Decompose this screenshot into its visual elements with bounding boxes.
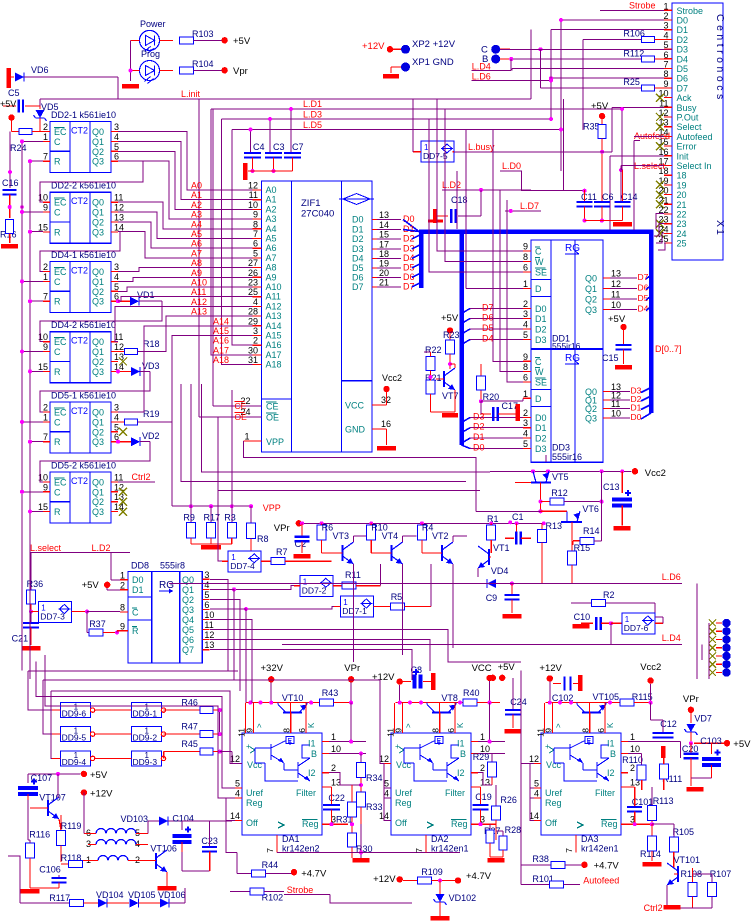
- svg-text:Vcc2: Vcc2: [382, 373, 402, 383]
- resistor R3: [231, 506, 233, 522]
- svg-text:7: 7: [414, 848, 424, 853]
- pin 4 wire: [111, 280, 118, 282]
- svg-text:D: D: [535, 394, 542, 404]
- eprom diamond symbol: [343, 194, 370, 205]
- wire DA1 pin14 feed: [226, 798, 235, 821]
- svg-text:D4: D4: [677, 54, 689, 64]
- svg-text:DD5-1 k561ie10: DD5-1 k561ie10: [51, 391, 116, 401]
- svg-text:DD7-3: DD7-3: [40, 612, 65, 622]
- svg-text:8: 8: [581, 728, 591, 733]
- svg-text:C22: C22: [328, 793, 345, 803]
- svg-text:15: 15: [38, 502, 48, 512]
- svg-text:Uref: Uref: [246, 788, 264, 798]
- wire: [399, 685, 401, 703]
- wire Init: [610, 155, 664, 157]
- svg-text:EC: EC: [54, 267, 67, 277]
- svg-text:6: 6: [596, 728, 606, 733]
- svg-text:5: 5: [235, 779, 240, 789]
- regulator DA3 kr142en1: [541, 733, 621, 835]
- svg-text:Off: Off: [246, 818, 258, 828]
- svg-text:R116: R116: [29, 830, 50, 840]
- svg-text:+12V: +12V: [373, 874, 396, 885]
- svg-text:12: 12: [230, 754, 240, 764]
- svg-text:VT101: VT101: [674, 855, 701, 865]
- wire DD8 q5-q7 right: [210, 629, 521, 662]
- DA2 pin 8 top: [439, 703, 441, 733]
- pin 6 wire: [111, 300, 118, 302]
- svg-text:A7: A7: [266, 253, 277, 263]
- svg-text:29: 29: [248, 316, 258, 326]
- svg-text:L.D5: L.D5: [303, 120, 322, 130]
- pin 15 wire: [43, 370, 50, 372]
- svg-text:20: 20: [379, 268, 389, 278]
- svg-text:I2: I2: [308, 768, 316, 778]
- svg-text:28: 28: [248, 307, 258, 317]
- pin 12 wire: [111, 351, 118, 353]
- wire: [118, 232, 253, 258]
- svg-text:A13: A13: [191, 307, 207, 317]
- svg-text:A5: A5: [266, 234, 277, 244]
- wire pin2: [329, 773, 361, 785]
- svg-text:10: 10: [611, 409, 621, 419]
- wire pin10: [478, 753, 505, 755]
- svg-text:20: 20: [677, 190, 687, 200]
- svg-text:C: C: [54, 417, 61, 427]
- svg-text:Reg: Reg: [302, 819, 319, 829]
- svg-text:R44: R44: [262, 860, 279, 870]
- svg-text:Strobe: Strobe: [287, 885, 314, 895]
- resistor R10: [367, 525, 376, 540]
- unused pins x: [119, 488, 127, 496]
- svg-text:D7: D7: [352, 282, 364, 292]
- svg-text:+5V: +5V: [233, 36, 251, 47]
- wire: [601, 471, 603, 541]
- svg-text:VD3: VD3: [142, 361, 160, 371]
- svg-text:DD7-5: DD7-5: [423, 151, 448, 161]
- svg-text:CT2: CT2: [71, 336, 88, 346]
- svg-text:+4.7V: +4.7V: [466, 871, 492, 882]
- svg-text:D4: D4: [638, 304, 649, 314]
- svg-text:A11: A11: [266, 292, 281, 302]
- pin 5 wire: [111, 150, 118, 152]
- svg-text:2: 2: [663, 11, 668, 21]
- svg-text:Q3: Q3: [182, 605, 194, 615]
- svg-text:2: 2: [331, 763, 336, 773]
- wire: [95, 733, 132, 735]
- ground: [431, 916, 450, 921]
- svg-text:Filter: Filter: [595, 788, 615, 798]
- wire: [218, 417, 480, 491]
- bus entry: [641, 405, 651, 410]
- svg-text:D5: D5: [638, 293, 649, 303]
- IC DD3 555ir16 register: [531, 350, 603, 463]
- svg-text:A1: A1: [266, 195, 277, 205]
- svg-text:3: 3: [253, 326, 258, 336]
- svg-text:8: 8: [253, 219, 258, 229]
- pin 15 wire: [43, 231, 50, 233]
- svg-text:K: K: [307, 722, 316, 728]
- svg-text:+5V: +5V: [90, 770, 108, 781]
- DA2 pin 10: [471, 753, 478, 755]
- pad: [709, 661, 716, 668]
- svg-text:R45: R45: [181, 739, 198, 749]
- pin 10 wire: [43, 341, 50, 343]
- wire: [22, 351, 43, 353]
- svg-text:I2: I2: [607, 768, 615, 778]
- wire: [118, 141, 253, 199]
- node Vcc2: [632, 468, 638, 474]
- svg-text:3: 3: [114, 403, 119, 413]
- svg-text:VT3: VT3: [333, 531, 350, 541]
- wire: [452, 564, 454, 570]
- svg-text:D2: D2: [535, 325, 547, 335]
- svg-text:Select In: Select In: [677, 161, 712, 171]
- svg-text:5: 5: [114, 142, 119, 152]
- svg-text:EC: EC: [54, 198, 67, 208]
- wire: [118, 151, 253, 209]
- svg-text:11: 11: [114, 472, 123, 482]
- svg-text:Q3: Q3: [92, 437, 104, 447]
- svg-text:D3: D3: [473, 412, 485, 422]
- bottom wire: [277, 851, 460, 853]
- svg-text:Reg: Reg: [246, 798, 263, 808]
- wire A13: [162, 316, 253, 352]
- wire DA3 left pins: [520, 670, 522, 884]
- svg-text:R8: R8: [257, 534, 269, 544]
- pin 10 wire: [43, 201, 50, 203]
- svg-text:L.D0: L.D0: [502, 161, 521, 171]
- wire pin10: [329, 753, 366, 755]
- wire: [118, 297, 253, 302]
- svg-text:2: 2: [43, 403, 48, 413]
- DA3 pin 13: [621, 786, 628, 788]
- svg-text:D6: D6: [638, 283, 649, 293]
- svg-text:R117: R117: [49, 893, 70, 903]
- svg-text:C14: C14: [621, 192, 638, 202]
- svg-text:DD3: DD3: [552, 443, 570, 453]
- svg-text:Reg: Reg: [601, 819, 618, 829]
- svg-text:Q0: Q0: [92, 477, 104, 487]
- pin 3 wire: [111, 271, 118, 273]
- svg-text:DA2: DA2: [431, 834, 449, 844]
- wire VT6 base rail: [476, 510, 541, 512]
- svg-text:VD104: VD104: [96, 890, 124, 900]
- svg-text:DD2-1 k561ie10: DD2-1 k561ie10: [51, 110, 116, 120]
- wire: [30, 231, 43, 233]
- svg-text:VT7: VT7: [442, 391, 459, 401]
- svg-text:R12: R12: [551, 488, 568, 498]
- svg-text:L.D3: L.D3: [303, 110, 322, 120]
- svg-text:DD7-2: DD7-2: [302, 585, 327, 595]
- svg-text:>: >: [404, 723, 413, 728]
- svg-text:+12V: +12V: [90, 789, 113, 800]
- bus entry: [646, 307, 651, 311]
- DA3 pin 7: [575, 835, 577, 852]
- wire: [500, 48, 510, 50]
- svg-text:D2: D2: [677, 35, 689, 45]
- svg-text:C5: C5: [8, 88, 20, 98]
- wire: [231, 390, 233, 506]
- pad: [709, 628, 716, 635]
- svg-text:Q1: Q1: [92, 277, 104, 287]
- ground: [122, 84, 139, 89]
- DA1 pin 4: [235, 797, 242, 799]
- bus entry: [646, 275, 651, 279]
- svg-text:D6: D6: [482, 313, 494, 323]
- wire: [472, 69, 512, 71]
- svg-text:8: 8: [523, 362, 528, 372]
- node +5V: [8, 114, 14, 120]
- svg-text:R34: R34: [366, 773, 383, 783]
- inverter DD9-1: [132, 703, 162, 718]
- svg-text:Q3: Q3: [585, 305, 597, 315]
- svg-text:A8: A8: [266, 263, 277, 273]
- wire: [52, 757, 61, 759]
- svg-text:5: 5: [384, 779, 389, 789]
- svg-text:RG: RG: [159, 580, 174, 591]
- svg-text:3: 3: [523, 418, 528, 428]
- svg-text:R28: R28: [505, 825, 522, 835]
- svg-text:10: 10: [38, 193, 48, 203]
- wire reset rail: [29, 161, 31, 679]
- svg-text:R107: R107: [710, 869, 732, 879]
- svg-text:1: 1: [480, 732, 485, 742]
- ground: [386, 429, 388, 445]
- svg-text:25: 25: [677, 239, 687, 249]
- wire L.init: [118, 98, 531, 100]
- svg-text:4: 4: [384, 789, 389, 799]
- svg-text:+5V: +5V: [591, 101, 609, 112]
- svg-text:7: 7: [43, 432, 48, 442]
- svg-text:A4: A4: [266, 224, 277, 234]
- svg-text:7: 7: [43, 292, 48, 302]
- svg-text:A3: A3: [266, 214, 277, 224]
- svg-text:D4: D4: [352, 254, 364, 264]
- svg-text:A2: A2: [266, 204, 277, 214]
- svg-text:A8: A8: [191, 258, 202, 268]
- DA2 pin 13: [471, 786, 478, 788]
- svg-text:R3: R3: [224, 513, 236, 523]
- svg-text:C: C: [54, 277, 61, 287]
- pin 15 wire: [43, 511, 50, 513]
- svg-text:R105: R105: [673, 827, 695, 837]
- wire L.D4 to pin7: [512, 68, 664, 70]
- svg-text:3: 3: [204, 570, 209, 580]
- svg-text:+5V: +5V: [82, 580, 100, 591]
- wire DD3 control feeds: [493, 130, 523, 362]
- svg-text:9: 9: [544, 728, 554, 733]
- DA1 pin 7: [276, 835, 278, 852]
- resistor R8: [250, 506, 252, 523]
- pin 12 wire: [111, 211, 118, 213]
- ground: [490, 856, 503, 858]
- svg-text:26: 26: [248, 268, 258, 278]
- svg-text:Q6: Q6: [182, 635, 194, 645]
- svg-text:L.D6: L.D6: [662, 572, 681, 582]
- svg-text:+5V: +5V: [441, 313, 459, 324]
- wire: [22, 280, 43, 282]
- bus entry: [470, 328, 523, 330]
- svg-text:12: 12: [529, 754, 539, 764]
- svg-text:Strobe: Strobe: [677, 6, 704, 16]
- svg-text:+4.7V: +4.7V: [594, 861, 620, 872]
- wire mesh verticals: [530, 30, 532, 99]
- svg-text:R: R: [54, 367, 61, 377]
- regulator DA2 kr142en1: [391, 733, 471, 835]
- svg-text:L.busy: L.busy: [468, 142, 495, 152]
- inverter DD9-4: [61, 751, 91, 766]
- svg-text:8: 8: [431, 728, 441, 733]
- svg-text:D1: D1: [352, 225, 364, 235]
- svg-text:Autofeed: Autofeed: [583, 876, 619, 886]
- svg-text:Q1: Q1: [92, 417, 104, 427]
- svg-text:VT2: VT2: [432, 531, 449, 541]
- svg-text:1: 1: [331, 732, 336, 742]
- svg-text:DD4-2 k561ie10: DD4-2 k561ie10: [51, 320, 116, 330]
- svg-text:XP2 +12V: XP2 +12V: [412, 39, 456, 50]
- svg-text:C: C: [54, 137, 61, 147]
- wire: [30, 160, 43, 162]
- svg-text:Off: Off: [545, 818, 557, 828]
- svg-text:2: 2: [120, 580, 125, 590]
- svg-text:Q0: Q0: [585, 274, 597, 284]
- svg-text:C19: C19: [475, 792, 492, 802]
- svg-text:4: 4: [114, 272, 119, 282]
- wire Autofeed down: [633, 141, 635, 231]
- svg-text:1: 1: [43, 412, 48, 422]
- svg-text:5: 5: [114, 422, 119, 432]
- svg-text:DD7-4: DD7-4: [230, 561, 255, 571]
- svg-text:5: 5: [253, 248, 258, 258]
- resistor R33: [357, 792, 366, 807]
- svg-text:25: 25: [248, 287, 258, 297]
- svg-text:Q1: Q1: [585, 284, 597, 294]
- terminal bar: [431, 673, 436, 690]
- svg-text:10: 10: [204, 610, 214, 620]
- svg-text:VD2: VD2: [142, 431, 160, 441]
- wire: [35, 670, 37, 688]
- wire: [160, 70, 174, 72]
- svg-text:Q2: Q2: [585, 295, 597, 305]
- wire: [52, 733, 61, 735]
- svg-text:3: 3: [114, 262, 119, 272]
- svg-text:VCC: VCC: [345, 401, 365, 411]
- svg-text:1: 1: [43, 272, 48, 282]
- DA3 pin 6 top: [604, 703, 606, 733]
- svg-text:Q2: Q2: [585, 404, 597, 414]
- svg-text:D0: D0: [132, 575, 144, 585]
- svg-text:5: 5: [534, 779, 539, 789]
- svg-text:R24: R24: [10, 143, 27, 153]
- inverter DD7-2: [300, 575, 333, 596]
- svg-text:12: 12: [114, 203, 124, 213]
- DA1 pin 13: [322, 786, 329, 788]
- svg-text:Q1: Q1: [92, 347, 104, 357]
- wire carry loop 2: [40, 232, 120, 272]
- wire L.D7: [505, 210, 541, 212]
- top rail: [396, 702, 501, 704]
- svg-text:R: R: [54, 297, 61, 307]
- svg-text:D: D: [535, 284, 542, 294]
- svg-text:7: 7: [663, 60, 668, 70]
- svg-text:SE: SE: [535, 378, 547, 388]
- svg-text:VD4: VD4: [491, 566, 509, 576]
- inverter DD9-2: [132, 727, 162, 742]
- node +5V: [221, 37, 227, 43]
- svg-text:6: 6: [253, 239, 258, 249]
- DA2 pin 4: [384, 797, 391, 799]
- svg-text:D0: D0: [473, 443, 485, 453]
- svg-text:Filter: Filter: [296, 788, 316, 798]
- DA1 pin 6 top: [305, 703, 307, 733]
- ground: [353, 858, 370, 863]
- DA3 pin 5: [534, 787, 541, 789]
- svg-text:Q0: Q0: [92, 127, 104, 137]
- pin 5 wire: [111, 290, 118, 292]
- svg-text:19: 19: [379, 259, 389, 269]
- svg-text:SE: SE: [535, 268, 547, 278]
- svg-text:R13: R13: [546, 521, 563, 531]
- svg-text:Q0: Q0: [92, 408, 104, 418]
- wire: [110, 553, 112, 580]
- svg-text:R102: R102: [262, 893, 284, 903]
- wire: [30, 441, 43, 443]
- svg-text:5: 5: [523, 439, 528, 449]
- svg-text:8: 8: [282, 728, 292, 733]
- svg-text:Q0: Q0: [92, 198, 104, 208]
- svg-text:13: 13: [379, 210, 389, 220]
- svg-text:A16: A16: [213, 336, 229, 346]
- svg-text:17: 17: [379, 240, 389, 250]
- svg-text:+12V: +12V: [362, 41, 385, 52]
- svg-text:A13: A13: [266, 311, 282, 321]
- bus entry: [646, 286, 651, 290]
- IC ZIF1 27C040 EPROM socket: [262, 181, 373, 452]
- svg-text:1: 1: [663, 1, 668, 11]
- svg-text:K: K: [456, 722, 465, 728]
- svg-text:R109: R109: [421, 867, 443, 877]
- svg-text:C: C: [132, 608, 139, 618]
- svg-text:VD102: VD102: [449, 893, 477, 903]
- ground: [615, 365, 632, 370]
- DA2 pin 14: [384, 820, 391, 822]
- svg-text:DA3: DA3: [581, 834, 599, 844]
- svg-text:D1: D1: [535, 423, 547, 433]
- svg-text:11: 11: [204, 620, 213, 630]
- svg-text:+5V: +5V: [498, 662, 516, 673]
- svg-text:B: B: [311, 749, 317, 759]
- connector XP1 GND: [401, 63, 410, 72]
- svg-text:4: 4: [204, 580, 209, 590]
- DA2 pin 1: [471, 741, 478, 743]
- svg-text:+12V: +12V: [539, 663, 562, 674]
- DA1 pin 5: [235, 787, 242, 789]
- svg-text:22: 22: [677, 210, 687, 220]
- svg-text:A9: A9: [191, 268, 202, 278]
- svg-text:DD9-2: DD9-2: [133, 733, 158, 743]
- wire L.D1: [211, 108, 622, 110]
- wire: [95, 709, 132, 711]
- wire: [118, 161, 253, 219]
- svg-text:EC: EC: [54, 127, 67, 137]
- DA3 pin 12: [534, 763, 541, 765]
- DA3 pin 1: [621, 741, 628, 743]
- svg-text:Vcc2: Vcc2: [645, 468, 666, 479]
- wire: [131, 39, 140, 41]
- wire CE: [212, 109, 214, 406]
- ground: [166, 872, 168, 886]
- pin 5 wire: [111, 431, 118, 433]
